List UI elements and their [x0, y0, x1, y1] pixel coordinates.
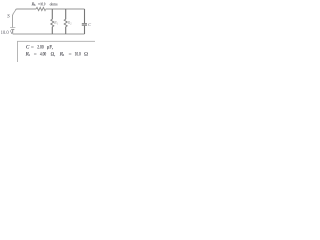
resistor R2 branch [64, 9, 72, 34]
wire R2 branch [65, 9, 67, 34]
svg-text:=: = [34, 51, 37, 57]
capacitor C branch [82, 9, 91, 34]
svg-text:10.0: 10.0 [40, 1, 46, 6]
svg-text:Ω: Ω [84, 51, 88, 57]
wire left [12, 15, 14, 34]
resistor R2 zigzag [64, 19, 67, 27]
switch S [7, 9, 16, 20]
svg-text:1: 1 [28, 53, 30, 57]
wire R1 branch [51, 9, 53, 34]
value text line 2: R1 = 4.00 ohm, R2 = 10.0 ohm [25, 51, 89, 57]
svg-text:R2: R2 [67, 21, 72, 26]
svg-text:2: 2 [63, 53, 65, 57]
capacitor C top plate [82, 23, 87, 25]
svg-text:μF,: μF, [47, 44, 53, 50]
svg-text:R1: R1 [53, 21, 58, 26]
wire top [16, 8, 84, 10]
resistor R3 value label "R3 = 10.0 ohms" [31, 1, 58, 7]
svg-text:C: C [26, 44, 30, 50]
resistor R1 branch [51, 9, 59, 34]
capacitor C bottom plate [82, 24, 87, 26]
svg-text:=: = [69, 51, 72, 57]
values box [18, 41, 98, 65]
wire capacitor branch [84, 9, 86, 34]
battery negative plate [11, 29, 14, 31]
resistor R1 zigzag [51, 19, 54, 27]
svg-text:10.0 V: 10.0 V [1, 31, 14, 36]
switch contact top [14, 9, 17, 10]
svg-text:4.00: 4.00 [40, 51, 47, 57]
svg-text:3: 3 [34, 3, 36, 7]
switch contact bottom [12, 14, 13, 15]
svg-text:C: C [88, 22, 91, 27]
switch blade [13, 9, 16, 14]
battery positive plate [10, 27, 15, 29]
battery 10.0 V [10, 28, 15, 30]
svg-text:=: = [31, 44, 34, 50]
resistor R3 (top zigzag) [36, 7, 46, 10]
wire bottom [13, 33, 85, 35]
value text line 1: C = 2.00 uF, [26, 44, 53, 50]
svg-text:Ω,: Ω, [51, 51, 56, 57]
svg-text:S: S [7, 14, 10, 20]
svg-text:ohms: ohms [50, 1, 58, 6]
svg-text:10.0: 10.0 [75, 51, 81, 57]
svg-text:2.00: 2.00 [37, 44, 44, 50]
